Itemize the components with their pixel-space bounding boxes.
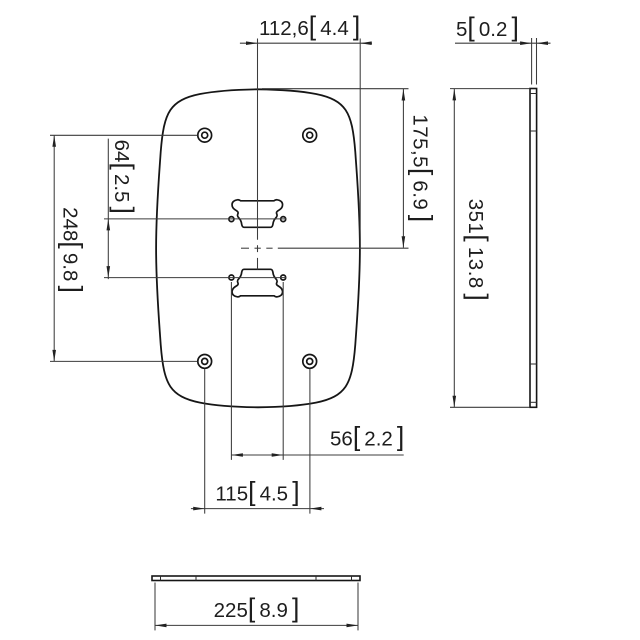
bottom view tick left — [195, 576, 197, 581]
arrow 175,5 top (up) — [402, 89, 406, 101]
side view tick lower — [530, 363, 537, 365]
hole bottom-left outer — [198, 355, 212, 369]
arrow 248 top (up) — [52, 135, 56, 147]
dim line 225 — [155, 624, 358, 626]
extension line 56 right (from bottom slot right ear) — [282, 282, 284, 460]
bottom view tick right — [315, 576, 317, 581]
arrow 64 top (up) — [107, 219, 111, 231]
extension line right of 112,6 — [359, 39, 361, 249]
arrow 225 right (inside, pointing right) — [347, 624, 359, 628]
arrow 175,5 bottom (down) — [402, 236, 406, 248]
hole bottom-right outer — [303, 355, 317, 369]
dim line 351 — [453, 89, 455, 407]
hole bottom-right inner — [307, 358, 313, 364]
arrow 56 left (inside, pointing left) — [231, 453, 243, 457]
side view tick upper — [530, 130, 537, 132]
dim line 112,6 — [240, 42, 372, 44]
horizontal centerline solid segment (175,5 bottom extension) — [278, 247, 409, 249]
arrow 64 bottom (down) — [107, 266, 111, 278]
horizontal centerline dash right — [266, 247, 272, 249]
arrow 248 bottom (down) — [52, 350, 56, 362]
arrow 225 left (inside, pointing left) — [155, 624, 167, 628]
hole top-right outer — [303, 128, 317, 142]
top slot — [232, 200, 283, 228]
arrow 5 right (outside, pointing left) — [537, 41, 549, 45]
side view plate body — [530, 89, 537, 408]
extension line 351 top — [450, 88, 529, 90]
extension line 56 left (from bottom slot left ear) — [230, 282, 232, 460]
bottom slot left ear circle — [229, 275, 234, 280]
bottom view tick near right corner — [351, 576, 353, 581]
top slot left ear circle — [229, 217, 234, 222]
extension line 225 right — [357, 583, 359, 631]
bottom view plate body — [152, 576, 360, 581]
arrow 112,6 right (outside, pointing left) — [360, 41, 372, 45]
bottom slot (mirror of top slot) — [232, 269, 283, 297]
hole top-left inner — [202, 132, 208, 138]
vertical centerline solid (also 112,6 left extension) — [257, 39, 259, 240]
vertical centerline dash at cross — [257, 245, 259, 252]
dim line 5 — [455, 42, 551, 44]
side view tick near bottom corner — [530, 401, 537, 403]
dim line 64 (extends up past span for text) — [107, 139, 109, 280]
top slot right ear circle — [281, 217, 286, 222]
dim line 115 — [191, 508, 324, 510]
arrow 115 right (outside, pointing left) — [310, 507, 322, 511]
side view tick near top corner — [530, 93, 537, 95]
extension line 248 bottom (to bottom-left hole) — [50, 360, 197, 362]
vertical centerline dash to bottom slot — [257, 258, 259, 270]
arrow 351 top (up) — [453, 89, 457, 101]
dim line 56 — [231, 454, 403, 456]
extension line 351 bottom — [450, 406, 529, 408]
extension line 5 left — [531, 38, 533, 85]
extension line 5 right — [536, 38, 538, 85]
extension line 225 left — [154, 583, 156, 631]
bottom view tick near left corner — [160, 576, 162, 581]
extension line top of 175,5 — [262, 88, 409, 90]
extension line 115 left (from bottom-left hole) — [204, 369, 206, 514]
extension line 115 right (from bottom-right hole) — [309, 369, 311, 514]
arrow 115 left (outside, pointing right) — [193, 507, 205, 511]
hole top-left outer — [198, 128, 212, 142]
extension line 248 top (to top-left hole) — [50, 134, 197, 136]
hole bottom-left inner — [202, 358, 208, 364]
dim line 248 — [53, 135, 55, 361]
horizontal centerline dash left — [241, 247, 249, 249]
horizontal centerline dash center — [255, 247, 261, 249]
extension line 64 top (through top slot ears) — [104, 218, 287, 220]
plate outline — [156, 89, 360, 407]
arrow 351 bottom (down) — [453, 396, 457, 408]
extension line 64 bottom (through bottom slot ears) — [104, 277, 287, 279]
bottom slot right ear circle — [281, 275, 286, 280]
arrow 112,6 left (outside, pointing right) — [246, 41, 258, 45]
hole top-right inner — [307, 132, 313, 138]
dim line 175,5 — [402, 89, 404, 248]
arrow 5 left (outside, pointing right) — [520, 41, 532, 45]
arrow 56 right (inside, pointing right) — [272, 453, 284, 457]
